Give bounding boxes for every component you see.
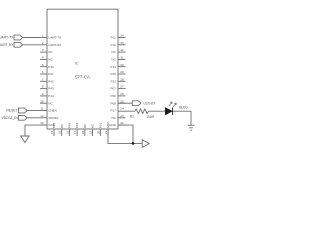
svg-text:100R: 100R [146, 115, 154, 119]
net flag UART-RX [14, 42, 23, 47]
svg-text:UART-RX: UART-RX [0, 43, 14, 47]
svg-text:P11: P11 [111, 36, 116, 40]
svg-text:P23: P23 [110, 79, 116, 83]
svg-text:8: 8 [42, 85, 44, 89]
svg-text:7: 7 [42, 77, 44, 81]
svg-text:UART-RX: UART-RX [48, 43, 61, 47]
svg-text:6: 6 [42, 70, 44, 74]
LED emission arrow 1 [169, 102, 172, 106]
wire pin 24 to resistor R2 [118, 110, 135, 112]
IC pin 25 P08 stub [118, 102, 126, 104]
IC pin 1 UART-TX stub [40, 37, 47, 39]
svg-text:P17: P17 [110, 109, 116, 113]
svg-text:GND: GND [106, 121, 110, 129]
svg-text:10: 10 [40, 99, 44, 103]
svg-text:P44: P44 [48, 94, 54, 98]
IC pin 23 NC stub [118, 117, 126, 119]
svg-text:4: 4 [42, 56, 44, 60]
svg-text:BLED: BLED [179, 106, 188, 110]
svg-text:IC: IC [75, 61, 79, 65]
svg-text:14: 14 [50, 130, 54, 134]
IC pin 8 P43 stub [40, 88, 47, 90]
svg-text:P07: P07 [110, 87, 116, 91]
svg-text:NC: NC [83, 123, 87, 128]
svg-text:19: 19 [89, 130, 93, 134]
IC pin 9 P44 stub [40, 95, 47, 97]
svg-text:NC: NC [48, 101, 53, 105]
svg-text:23: 23 [120, 114, 124, 118]
svg-text:11: 11 [40, 107, 43, 111]
svg-text:577-CA: 577-CA [75, 75, 90, 80]
svg-text:P06: P06 [110, 94, 116, 98]
svg-text:P41: P41 [48, 72, 54, 76]
svg-text:CHEN: CHEN [48, 109, 57, 113]
IC pin 2 UART-RX stub [40, 44, 47, 46]
svg-text:26: 26 [120, 92, 124, 96]
junction node GND net [132, 142, 135, 145]
IC pin 22 GND stub [118, 124, 126, 126]
IC pin 16 P54 stub [68, 129, 70, 136]
svg-text:12: 12 [40, 114, 44, 118]
svg-text:NC: NC [48, 50, 53, 54]
IC pin 4 NC stub [40, 58, 47, 60]
earth ground symbol right [188, 125, 195, 130]
svg-text:P19: P19 [110, 72, 116, 76]
svg-text:P07: P07 [52, 123, 56, 129]
IC pin 18 NC stub [84, 129, 86, 136]
svg-text:1: 1 [42, 34, 44, 38]
svg-text:R2: R2 [130, 114, 134, 118]
LED D1 BLED body [165, 108, 172, 115]
LED emission arrow 2 [173, 103, 176, 107]
svg-text:31: 31 [120, 56, 124, 60]
svg-text:21: 21 [104, 130, 108, 134]
IC pin 11 CHEN stub [40, 110, 47, 112]
svg-text:RESET: RESET [6, 109, 17, 113]
svg-text:P16: P16 [98, 123, 102, 129]
IC pin 31 NC stub [118, 58, 126, 60]
svg-text:15: 15 [58, 130, 62, 134]
svg-text:P42: P42 [48, 79, 54, 83]
svg-text:25: 25 [120, 99, 124, 103]
net flag LED-BT [132, 101, 141, 106]
wire pin 13 GND down [25, 125, 47, 136]
svg-text:NC: NC [111, 58, 116, 62]
net flag UART-TX [14, 35, 23, 40]
svg-text:NC: NC [111, 116, 116, 120]
wire pin 21 GND to GND net [108, 129, 142, 143]
svg-text:3: 3 [42, 48, 44, 52]
svg-text:18: 18 [81, 130, 85, 134]
wire RESET to pin 11 [27, 110, 40, 112]
wire LED cathode to ground [173, 111, 191, 125]
IC pin 33 P10 stub [118, 44, 126, 46]
IC pin 34 P11 stub [118, 37, 126, 39]
IC pin 17 P18 stub [76, 129, 78, 136]
svg-text:13: 13 [40, 121, 44, 125]
IC pin 15 NC stub [61, 129, 63, 136]
svg-text:22: 22 [120, 121, 124, 125]
IC pin 6 P41 stub [40, 73, 47, 75]
svg-text:28: 28 [120, 77, 124, 81]
IC pin 30 P13 stub [118, 66, 126, 68]
wire UART-RX to pin 2 [23, 44, 40, 46]
IC body IC 577-CA [47, 9, 118, 129]
svg-text:NC: NC [91, 123, 95, 128]
IC pin 26 P06 stub [118, 95, 126, 97]
IC pin 19 NC stub [92, 129, 94, 136]
wire pin 22 GND down [118, 125, 133, 143]
svg-text:16: 16 [65, 130, 69, 134]
svg-text:UART-TX: UART-TX [48, 36, 61, 40]
svg-text:27: 27 [120, 85, 124, 89]
svg-text:P54: P54 [68, 123, 72, 129]
wire UART-TX to pin 1 [23, 37, 40, 39]
IC pin 10 NC stub [40, 102, 47, 104]
svg-text:29: 29 [120, 70, 124, 74]
net flag RESET [19, 108, 28, 113]
svg-text:P18: P18 [75, 123, 79, 129]
svg-text:2: 2 [42, 41, 44, 45]
svg-text:P43: P43 [48, 87, 54, 91]
IC pin 20 P16 stub [99, 129, 101, 136]
GND power port triangle [142, 140, 149, 148]
svg-text:NC: NC [111, 50, 116, 54]
svg-text:UART-TX: UART-TX [0, 36, 14, 40]
svg-text:P10: P10 [110, 43, 116, 47]
IC pin 14 P07 stub [53, 129, 55, 136]
svg-text:9: 9 [42, 92, 44, 96]
svg-text:32: 32 [120, 48, 124, 52]
resistor R2 100R [135, 109, 148, 114]
IC pin 27 P07 stub [118, 88, 126, 90]
IC pin 5 P40 stub [40, 66, 47, 68]
svg-text:P40: P40 [48, 65, 54, 69]
wire R2 to LED anode [149, 110, 166, 112]
svg-text:P13: P13 [110, 65, 116, 69]
svg-text:30: 30 [120, 63, 124, 67]
svg-text:VDD33: VDD33 [48, 116, 58, 120]
IC pin 21 GND stub [107, 129, 109, 136]
IC pin 12 VDD33 stub [40, 117, 47, 119]
svg-text:VDD33_IN: VDD33_IN [1, 116, 18, 120]
net flag VDD33_IN [19, 115, 28, 120]
svg-text:P08: P08 [110, 101, 116, 105]
ground symbol (triangle) bottom left [21, 136, 29, 143]
svg-text:NC: NC [60, 123, 64, 128]
svg-text:34: 34 [120, 34, 124, 38]
svg-text:33: 33 [120, 41, 124, 45]
IC pin 13 GND stub [40, 124, 47, 126]
IC pin 28 P23 stub [118, 80, 126, 82]
IC pin 32 NC stub [118, 51, 126, 53]
svg-text:5: 5 [42, 63, 44, 67]
IC pin 7 P42 stub [40, 80, 47, 82]
svg-text:NC: NC [48, 58, 53, 62]
svg-text:20: 20 [96, 130, 100, 134]
svg-text:24: 24 [120, 107, 124, 111]
IC pin 3 NC stub [40, 51, 47, 53]
wire pin 25 to LED-BT flag [118, 102, 132, 104]
svg-text:LED-BT: LED-BT [144, 101, 156, 105]
svg-text:17: 17 [73, 130, 77, 134]
IC pin 29 P19 stub [118, 73, 126, 75]
svg-text:GND: GND [109, 123, 117, 127]
wire VDD33_IN to pin 12 [27, 117, 40, 119]
LED cathode bar [172, 108, 174, 115]
